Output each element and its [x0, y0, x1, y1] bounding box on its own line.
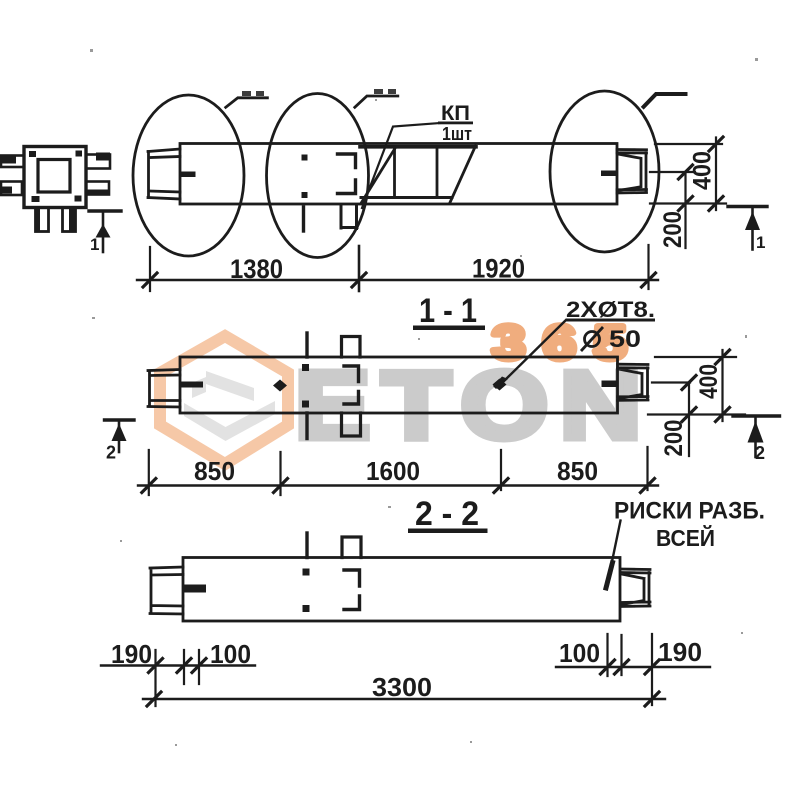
1-1 right tenon [618, 364, 649, 400]
oval2 leader [355, 96, 398, 107]
plan stirrup dot lower [302, 192, 308, 198]
plan stirrup hook lower [338, 180, 356, 194]
plan left tenon left edge [147, 152, 150, 198]
2-2 right tenon [621, 569, 651, 607]
cross-section left bar lower [1, 182, 22, 196]
svg-text:1шт: 1шт [442, 124, 472, 144]
2-2 left dim ticks [149, 659, 207, 673]
section 2-2 beam outline [183, 558, 620, 622]
plan anchor bar right [601, 171, 617, 177]
svg-text:2: 2 [106, 443, 116, 463]
scan speckles [90, 49, 758, 746]
cross-section left bar upper [1, 156, 24, 168]
plan dim extension mid [358, 246, 361, 291]
KP plate right slant [450, 146, 476, 203]
plan stirrup hook upper [338, 154, 356, 168]
1-1 stirrup line below [305, 413, 308, 439]
svg-text:1: 1 [90, 235, 99, 254]
cross-section right bar lower [86, 182, 109, 195]
1-1 anchor bar right [602, 381, 618, 388]
1-1 dim extensions [149, 447, 648, 495]
section marker 2 right [733, 414, 780, 417]
plan right tenon bottom lines [617, 190, 647, 194]
oval1 label marks [242, 91, 251, 96]
1-1 dim 400 ticks [716, 350, 730, 422]
riska leader [612, 521, 621, 565]
section marker 2 left [105, 418, 135, 421]
1-1 anchor bar left [180, 382, 203, 388]
1-1 dim 200 ticks [682, 376, 696, 422]
plan oval callout 3 [550, 91, 659, 252]
svg-text:200: 200 [660, 420, 688, 457]
2-2 left dim line [101, 664, 255, 666]
svg-text:1920: 1920 [472, 254, 525, 284]
plan dim 400 ticks [709, 137, 723, 211]
1-1 diamond 2 [493, 379, 507, 391]
oval1 leader [226, 98, 268, 108]
2-2 left tenon [150, 567, 183, 614]
1-1 right extension lines [648, 357, 745, 415]
KP underline [438, 122, 473, 125]
1-1 diamond 1 [273, 380, 287, 392]
1-1 dim 200 line [688, 383, 690, 457]
plan anchor bar left [180, 172, 196, 178]
2xOT8 underline [566, 319, 655, 322]
2-2 anchor bar [183, 585, 206, 593]
svg-text:50: 50 [609, 326, 641, 353]
plan right tenon right face [645, 153, 648, 190]
2-2 hook upper [344, 570, 360, 586]
riska mark [606, 563, 613, 589]
svg-text:190: 190 [111, 639, 152, 669]
plan oval callout 1 [133, 95, 244, 256]
svg-text:2: 2 [755, 443, 765, 463]
watermark gray slab upper-left face [192, 377, 206, 398]
plan dim ticks [143, 273, 656, 287]
1-1 stirrup line above [305, 333, 308, 357]
1-1 hook lower [344, 392, 359, 405]
plan dim extension right [647, 245, 649, 289]
plan dim 200 ticks [679, 165, 693, 211]
section 1-1 beam outline [180, 357, 618, 413]
cross-section inner square [38, 160, 70, 193]
svg-text:1 - 1: 1 - 1 [419, 292, 477, 330]
svg-text:РИСКИ РАЗБ.: РИСКИ РАЗБ. [614, 498, 765, 525]
title 2-2 underline [408, 529, 488, 534]
section marker 1 below cross-section [89, 209, 121, 212]
plan right tenon trapezoid [618, 154, 641, 191]
svg-text:850: 850 [557, 456, 598, 486]
plan hanging line below beam [302, 207, 305, 231]
1-1 dim 400 line [721, 350, 723, 421]
plan left tenon top lines [148, 149, 180, 158]
KP plate thick top line [360, 145, 476, 149]
KP plate left slant [362, 148, 396, 203]
plan bottom dim line 1380 1920 [137, 279, 658, 281]
plan beam outline [180, 144, 617, 205]
svg-text:200: 200 [659, 211, 687, 248]
2-2 hook lower [344, 596, 360, 610]
1-1 stirrup U below [342, 413, 361, 436]
section marker 1 right of plan [728, 205, 767, 208]
marker 1 arrowhead below cross-section [96, 224, 111, 238]
plan dim 400 line [715, 138, 717, 211]
1-1 hook upper [344, 366, 359, 382]
plan left tenon bottom lines [148, 191, 180, 199]
title 1-1 underline [413, 326, 485, 331]
plan hanging box below beam [341, 205, 357, 229]
cross-section right bar upper [86, 155, 110, 169]
marker 2 left arrowhead [112, 424, 127, 442]
cross-section outer square [24, 147, 86, 208]
KP plate vertical 1 [393, 148, 396, 198]
2-2 left dim extensions [156, 650, 200, 706]
1-1 leader 2xOT8 [504, 320, 566, 381]
oval3 leader [644, 94, 686, 107]
2-2 stirrup dots [303, 569, 310, 576]
svg-text:1: 1 [756, 233, 765, 252]
2-2 right dim ticks [601, 660, 660, 674]
1-1 dim ticks [142, 479, 655, 493]
2-2 right dim extensions [608, 634, 653, 705]
1-1 leader arrowhead [493, 377, 508, 390]
svg-text:850: 850 [194, 456, 235, 486]
plan dim 200 line [684, 172, 686, 248]
plan stirrup dot upper [302, 155, 308, 161]
plan oval callout 2 [267, 94, 369, 258]
KP label leader [362, 123, 440, 208]
1-1 stirrup dots [302, 364, 309, 371]
svg-text:1600: 1600 [366, 456, 420, 486]
cross-section bottom leg left [36, 208, 49, 232]
marker 2 right arrowhead [748, 421, 764, 443]
svg-text:400: 400 [695, 364, 723, 399]
oval2 label marks [374, 89, 383, 94]
2-2 right dim line [556, 666, 710, 668]
svg-text:400: 400 [689, 151, 717, 190]
1-1 bottom dim line [138, 484, 658, 486]
1-1 left tenon [148, 370, 180, 408]
plan right tenon top lines [617, 150, 647, 154]
svg-text:3300: 3300 [372, 672, 432, 702]
2-2 dim 3300 ticks [147, 692, 659, 706]
cross-section dark smudges [0, 155, 16, 164]
2-2 stirrup line above [305, 533, 308, 558]
diameter symbol [581, 327, 603, 351]
watermark gray slab upper [206, 371, 254, 401]
2-2 stirrup U above [342, 537, 361, 558]
svg-text:2ХØТ8.: 2ХØТ8. [566, 297, 655, 322]
plan dim extension left [149, 247, 151, 291]
svg-text:100: 100 [559, 638, 600, 668]
marker 1 arrowhead right of plan [745, 212, 760, 231]
watermark gray chevron lower [184, 401, 275, 441]
2-2 dim 3300 line [143, 698, 665, 700]
svg-text:190: 190 [658, 637, 702, 667]
cross-section corner dots [29, 151, 36, 157]
1-1 stirrup U above [342, 337, 361, 358]
cross-section bottom leg right [63, 208, 76, 232]
KP plate bottom line [361, 196, 452, 199]
watermark logo diamond ring [160, 317, 653, 464]
plan right extension lines [650, 144, 726, 204]
svg-text:100: 100 [210, 639, 251, 669]
svg-text:2 - 2: 2 - 2 [415, 495, 479, 533]
svg-text:1380: 1380 [230, 254, 283, 284]
svg-text:ВСЕЙ: ВСЕЙ [656, 524, 715, 551]
filled details [0, 89, 764, 612]
svg-text:КП: КП [441, 102, 470, 125]
KP plate vertical 2 [436, 148, 439, 198]
